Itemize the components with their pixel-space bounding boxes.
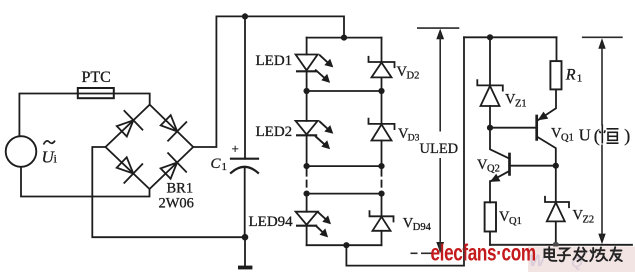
svg-text:i: i: [54, 152, 58, 166]
svg-text:LED1: LED1: [256, 53, 293, 69]
svg-text:Q2: Q2: [487, 164, 500, 175]
svg-text:): ): [624, 126, 630, 147]
svg-text:Z2: Z2: [583, 214, 595, 225]
svg-text:ULED: ULED: [420, 141, 459, 157]
svg-text:1: 1: [222, 161, 228, 173]
svg-text:R: R: [565, 67, 576, 84]
svg-text:D2: D2: [407, 71, 420, 82]
svg-text:PTC: PTC: [82, 69, 111, 86]
svg-text:1: 1: [577, 73, 583, 85]
svg-text:LED2: LED2: [256, 124, 293, 140]
svg-text:U: U: [579, 126, 591, 145]
svg-text:BR1: BR1: [167, 181, 194, 197]
svg-text:2W06: 2W06: [159, 196, 194, 212]
svg-text:+: +: [232, 141, 239, 156]
svg-text:Q1: Q1: [509, 216, 522, 227]
svg-text:(: (: [594, 126, 600, 147]
svg-text:elecfans·com: elecfans·com: [431, 240, 536, 266]
svg-text:Q1: Q1: [561, 132, 574, 143]
svg-text:D94: D94: [413, 222, 432, 233]
svg-text:LED94: LED94: [249, 214, 294, 230]
svg-text:Z1: Z1: [515, 98, 527, 109]
svg-text:D3: D3: [408, 133, 420, 144]
svg-text:C: C: [211, 156, 222, 172]
